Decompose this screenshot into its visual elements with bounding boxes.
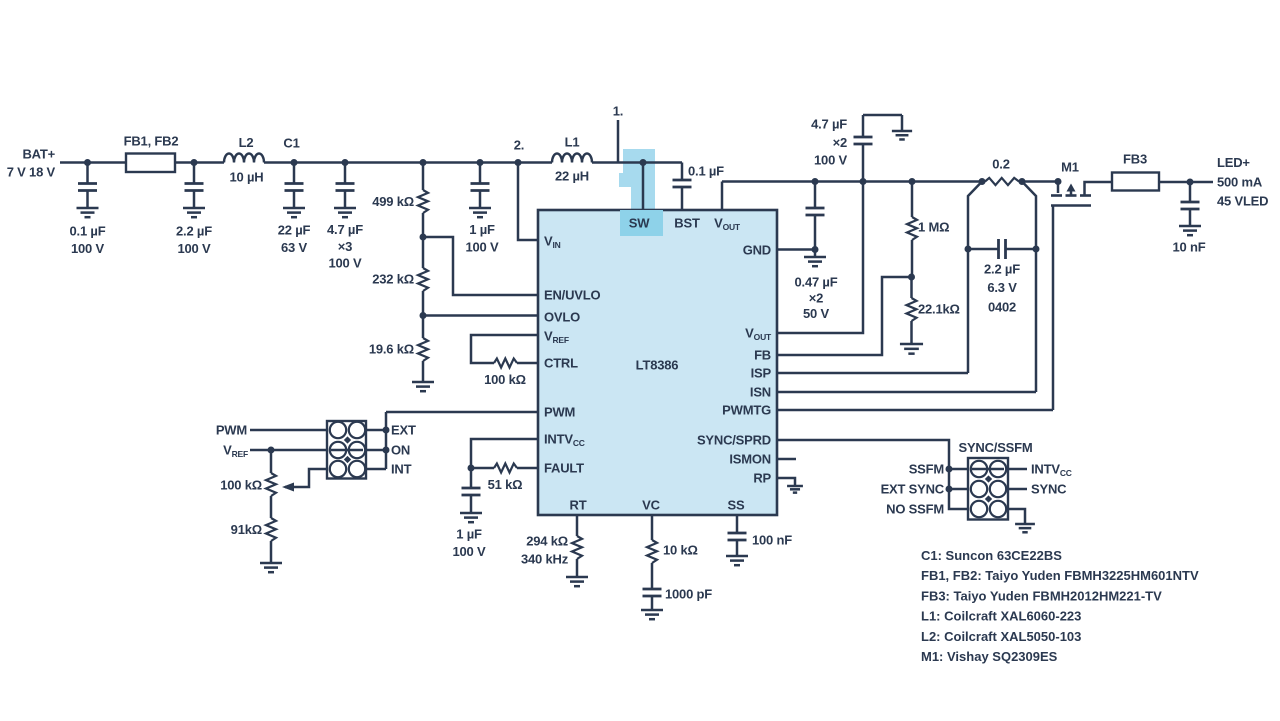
svg-text:0.2: 0.2	[992, 157, 1009, 172]
svg-text:294 kΩ: 294 kΩ	[526, 534, 568, 549]
svg-text:M1: M1	[1061, 160, 1079, 175]
svg-text:232 kΩ: 232 kΩ	[372, 272, 414, 287]
svg-text:RP: RP	[753, 471, 771, 486]
svg-text:LED+: LED+	[1217, 155, 1250, 170]
svg-text:VREF: VREF	[223, 443, 248, 460]
svg-text:EN/UVLO: EN/UVLO	[544, 288, 600, 303]
svg-text:91kΩ: 91kΩ	[231, 522, 262, 537]
svg-text:500 mA: 500 mA	[1217, 175, 1263, 190]
svg-text:LT8386: LT8386	[636, 358, 679, 373]
svg-text:INTVCC: INTVCC	[1031, 462, 1072, 479]
svg-text:6.3 V: 6.3 V	[987, 280, 1017, 295]
svg-text:0402: 0402	[988, 300, 1016, 315]
svg-text:SYNC/SPRD: SYNC/SPRD	[697, 433, 771, 448]
svg-text:4.7 µF: 4.7 µF	[811, 117, 847, 132]
svg-text:100 V: 100 V	[178, 241, 212, 256]
svg-text:OVLO: OVLO	[544, 310, 580, 325]
svg-text:100 V: 100 V	[453, 544, 487, 559]
svg-text:22 µF: 22 µF	[278, 223, 311, 238]
svg-text:0.47 µF: 0.47 µF	[795, 275, 838, 290]
svg-text:1 µF: 1 µF	[456, 527, 482, 542]
svg-text:SW: SW	[629, 216, 650, 231]
svg-text:100 kΩ: 100 kΩ	[484, 372, 526, 387]
svg-text:2.: 2.	[514, 138, 524, 153]
svg-text:ISP: ISP	[751, 366, 772, 381]
svg-text:CTRL: CTRL	[544, 356, 578, 371]
svg-text:10 kΩ: 10 kΩ	[663, 543, 698, 558]
svg-text:FB1, FB2: FB1, FB2	[124, 134, 179, 149]
svg-text:EXT SYNC: EXT SYNC	[881, 482, 945, 497]
svg-text:EXT: EXT	[391, 423, 416, 438]
svg-text:VC: VC	[642, 498, 660, 513]
svg-text:SYNC: SYNC	[1031, 482, 1067, 497]
svg-text:2.2 µF: 2.2 µF	[984, 262, 1020, 277]
svg-text:M1: Vishay SQ2309ES: M1: Vishay SQ2309ES	[921, 649, 1058, 664]
svg-text:BAT+: BAT+	[22, 147, 55, 162]
svg-text:PWMTG: PWMTG	[722, 403, 771, 418]
svg-text:FB1, FB2: Taiyo Yuden FBMH3225: FB1, FB2: Taiyo Yuden FBMH3225HM601NTV	[921, 568, 1199, 583]
svg-text:C1: C1	[283, 136, 299, 151]
svg-text:1.: 1.	[613, 104, 623, 119]
svg-text:×2: ×2	[809, 291, 823, 306]
svg-text:100 V: 100 V	[814, 153, 848, 168]
svg-text:100 kΩ: 100 kΩ	[220, 478, 262, 493]
svg-text:1 µF: 1 µF	[469, 222, 495, 237]
svg-text:C1: Suncon 63CE22BS: C1: Suncon 63CE22BS	[921, 548, 1062, 563]
svg-text:L1: L1	[565, 135, 580, 150]
svg-text:4.7 µF: 4.7 µF	[327, 222, 363, 237]
svg-text:100 V: 100 V	[329, 256, 363, 271]
svg-text:BST: BST	[674, 216, 700, 231]
svg-text:FB3: FB3	[1123, 152, 1147, 167]
svg-text:340 kHz: 340 kHz	[521, 552, 569, 567]
svg-text:FB3: Taiyo Yuden FBMH2012HM221: FB3: Taiyo Yuden FBMH2012HM221-TV	[921, 588, 1162, 603]
svg-text:22 µH: 22 µH	[555, 169, 589, 184]
svg-text:×2: ×2	[833, 135, 847, 150]
svg-text:63 V: 63 V	[281, 240, 307, 255]
svg-text:45 VLED: 45 VLED	[1217, 194, 1268, 209]
svg-text:ON: ON	[391, 443, 410, 458]
svg-text:SSFM: SSFM	[909, 462, 944, 477]
svg-text:0.1 µF: 0.1 µF	[70, 224, 106, 239]
svg-text:PWM: PWM	[216, 423, 247, 438]
svg-text:L2: Coilcraft XAL5050-103: L2: Coilcraft XAL5050-103	[921, 629, 1081, 644]
svg-text:19.6 kΩ: 19.6 kΩ	[369, 342, 414, 357]
svg-text:NO SSFM: NO SSFM	[886, 502, 944, 517]
svg-text:1000 pF: 1000 pF	[665, 587, 712, 602]
svg-text:100 nF: 100 nF	[752, 533, 792, 548]
svg-text:FB: FB	[754, 348, 771, 363]
svg-text:×3: ×3	[338, 239, 352, 254]
svg-text:10 nF: 10 nF	[1173, 240, 1206, 255]
svg-text:L1: Coilcraft XAL6060-223: L1: Coilcraft XAL6060-223	[921, 609, 1081, 624]
svg-text:2.2 µF: 2.2 µF	[176, 224, 212, 239]
svg-text:100 V: 100 V	[466, 240, 500, 255]
svg-text:RT: RT	[570, 498, 587, 513]
svg-text:7 V 18 V: 7 V 18 V	[7, 165, 56, 180]
svg-text:L2: L2	[239, 135, 254, 150]
svg-text:499 kΩ: 499 kΩ	[372, 194, 414, 209]
svg-text:SYNC/SSFM: SYNC/SSFM	[958, 440, 1032, 455]
svg-text:FAULT: FAULT	[544, 461, 584, 476]
svg-text:51 kΩ: 51 kΩ	[488, 477, 523, 492]
svg-text:1 MΩ: 1 MΩ	[918, 220, 949, 235]
svg-text:PWM: PWM	[544, 405, 575, 420]
svg-text:SS: SS	[728, 498, 745, 513]
svg-text:22.1kΩ: 22.1kΩ	[918, 302, 960, 317]
svg-text:ISN: ISN	[750, 385, 771, 400]
svg-text:100 V: 100 V	[71, 241, 105, 256]
svg-text:10 µH: 10 µH	[230, 170, 264, 185]
svg-text:0.1 µF: 0.1 µF	[688, 164, 724, 179]
svg-text:INT: INT	[391, 462, 412, 477]
svg-text:50 V: 50 V	[803, 306, 829, 321]
svg-text:GND: GND	[743, 243, 771, 258]
svg-text:ISMON: ISMON	[729, 452, 771, 467]
